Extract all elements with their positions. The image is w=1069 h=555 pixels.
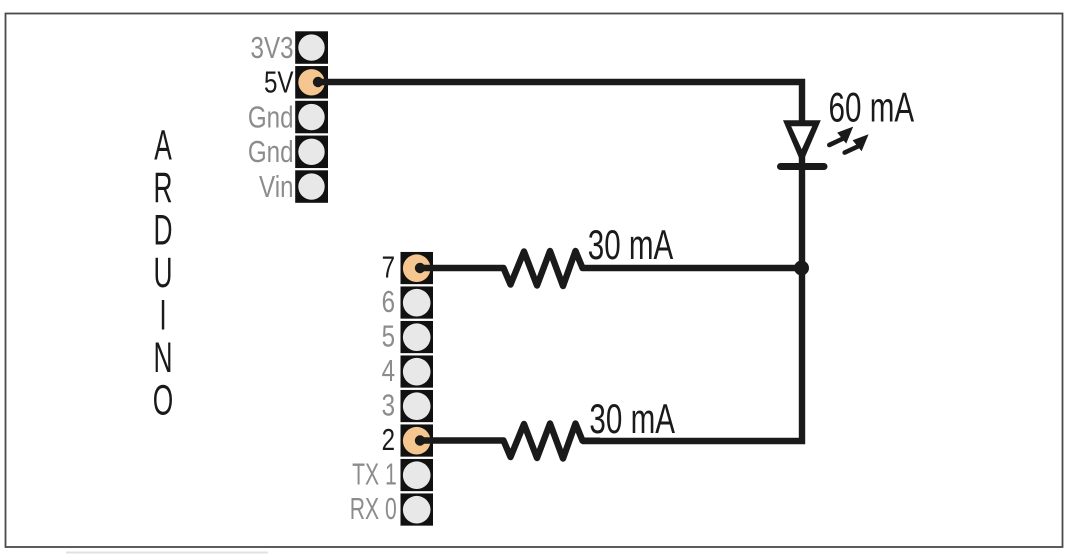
bottom header serial pin labels (350, 457, 397, 526)
pin 4 (403, 358, 431, 386)
LED cathode bar (781, 163, 825, 170)
wire pin7 with resistor R1 zigzag (420, 251, 805, 286)
svg-text:5: 5 (382, 319, 395, 353)
wire end cap dot at pin 2 (415, 435, 425, 445)
svg-text:3V3: 3V3 (251, 30, 294, 64)
svg-text:N: N (153, 335, 172, 382)
svg-text:R: R (153, 165, 172, 212)
pin 7 (active) (403, 254, 431, 282)
wire end cap dot at 5V pin (313, 77, 323, 87)
svg-text:3: 3 (382, 388, 395, 422)
bottom header pin labels (382, 250, 395, 457)
svg-text:O: O (153, 377, 173, 424)
svg-text:7: 7 (382, 250, 395, 284)
svg-text:RX 0: RX 0 (350, 491, 397, 526)
pin Gnd (298, 104, 324, 130)
svg-text:2: 2 (382, 422, 395, 456)
wire LED cathode down and left to pin2 resistor (582, 163, 802, 441)
svg-text:30 mA: 30 mA (588, 221, 674, 268)
svg-text:A: A (154, 122, 172, 169)
pin Vin (298, 173, 324, 199)
svg-text:Vin: Vin (259, 169, 293, 203)
pin 3 (403, 392, 431, 420)
pin Gnd (298, 139, 324, 165)
svg-text:Gnd: Gnd (248, 100, 294, 134)
scan artifact line below frame (66, 552, 268, 554)
pin 5V (active) (298, 69, 324, 95)
svg-text:5V: 5V (264, 65, 294, 99)
svg-text:I: I (159, 292, 166, 339)
LED emission arrow 1 (829, 127, 853, 145)
svg-text:60 mA: 60 mA (829, 83, 915, 130)
pin 6 (403, 289, 431, 317)
svg-text:D: D (153, 207, 172, 254)
top header pin labels (248, 30, 294, 203)
bottom header connector block (401, 252, 434, 526)
svg-text:TX 1: TX 1 (352, 457, 397, 492)
top header connector block (295, 31, 328, 203)
pin RX0 (403, 496, 431, 524)
LED emission arrow 2 (845, 134, 869, 152)
junction node dot (794, 261, 809, 276)
svg-text:Gnd: Gnd (248, 135, 294, 169)
pin 3V3 (298, 34, 324, 60)
pin TX1 (403, 461, 431, 489)
svg-text:4: 4 (382, 353, 395, 387)
wire pin2 with resistor R2 zigzag (420, 424, 600, 459)
pin 5 (403, 323, 431, 351)
wire 5V to LED anode (318, 82, 802, 170)
svg-text:30 mA: 30 mA (589, 395, 675, 442)
pin 2 (active) (403, 427, 431, 455)
svg-text:6: 6 (382, 284, 395, 318)
label ARDUINO (vertical) (153, 122, 173, 424)
svg-text:U: U (153, 250, 172, 297)
wire end cap dot at pin 7 (415, 263, 425, 273)
LED D1 triangle (783, 120, 821, 164)
